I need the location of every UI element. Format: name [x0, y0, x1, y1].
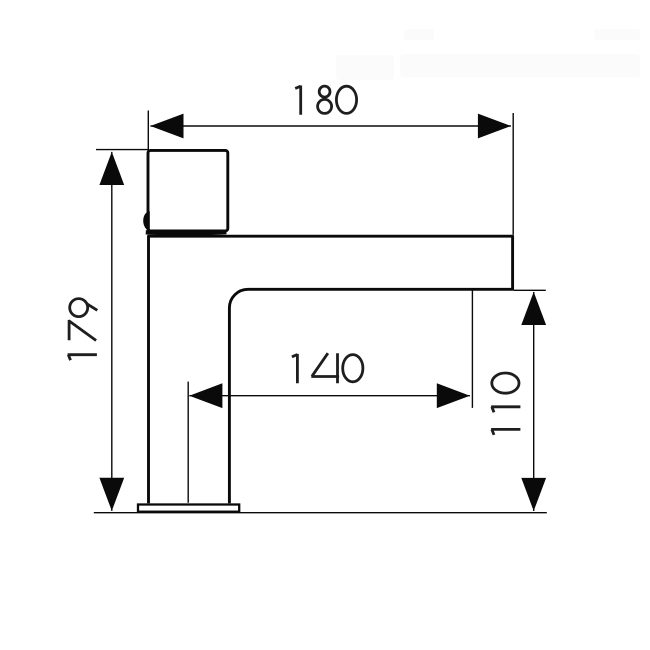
- label 110 rotated: [491, 373, 520, 435]
- extension line 179 top: [96, 149, 148, 151]
- dimension line 179: [111, 152, 113, 511]
- extension line 140 left: [187, 382, 189, 503]
- arrow 110 top: [521, 292, 546, 325]
- extension line 140 right: [471, 290, 473, 408]
- label 140: [292, 353, 363, 383]
- faucet body and spout outline: [149, 236, 513, 503]
- handle lever body: [148, 150, 228, 231]
- extension line 180 left: [147, 111, 149, 151]
- dimension line 110: [533, 292, 535, 511]
- arrow 140 right: [437, 383, 470, 408]
- arrow 180 right: [478, 114, 511, 139]
- arrow 179 top: [99, 152, 124, 185]
- arrow 110 bottom: [521, 478, 546, 511]
- arrow 179 bottom: [99, 478, 124, 511]
- arrow 180 left: [150, 114, 183, 139]
- faint watermark strip: [336, 29, 640, 80]
- dimension line 180: [150, 125, 511, 127]
- base plate: [138, 505, 239, 512]
- extension line 110 top: [514, 289, 546, 291]
- handle bottom band: [146, 232, 227, 233]
- arrow 140 left: [189, 383, 222, 408]
- handle pivot knob: [143, 211, 150, 230]
- ground baseline: [94, 512, 547, 514]
- extension line 180 right: [512, 113, 514, 235]
- dimension line 140: [189, 395, 470, 397]
- label 180: [295, 86, 356, 115]
- label 179 rotated: [68, 299, 98, 361]
